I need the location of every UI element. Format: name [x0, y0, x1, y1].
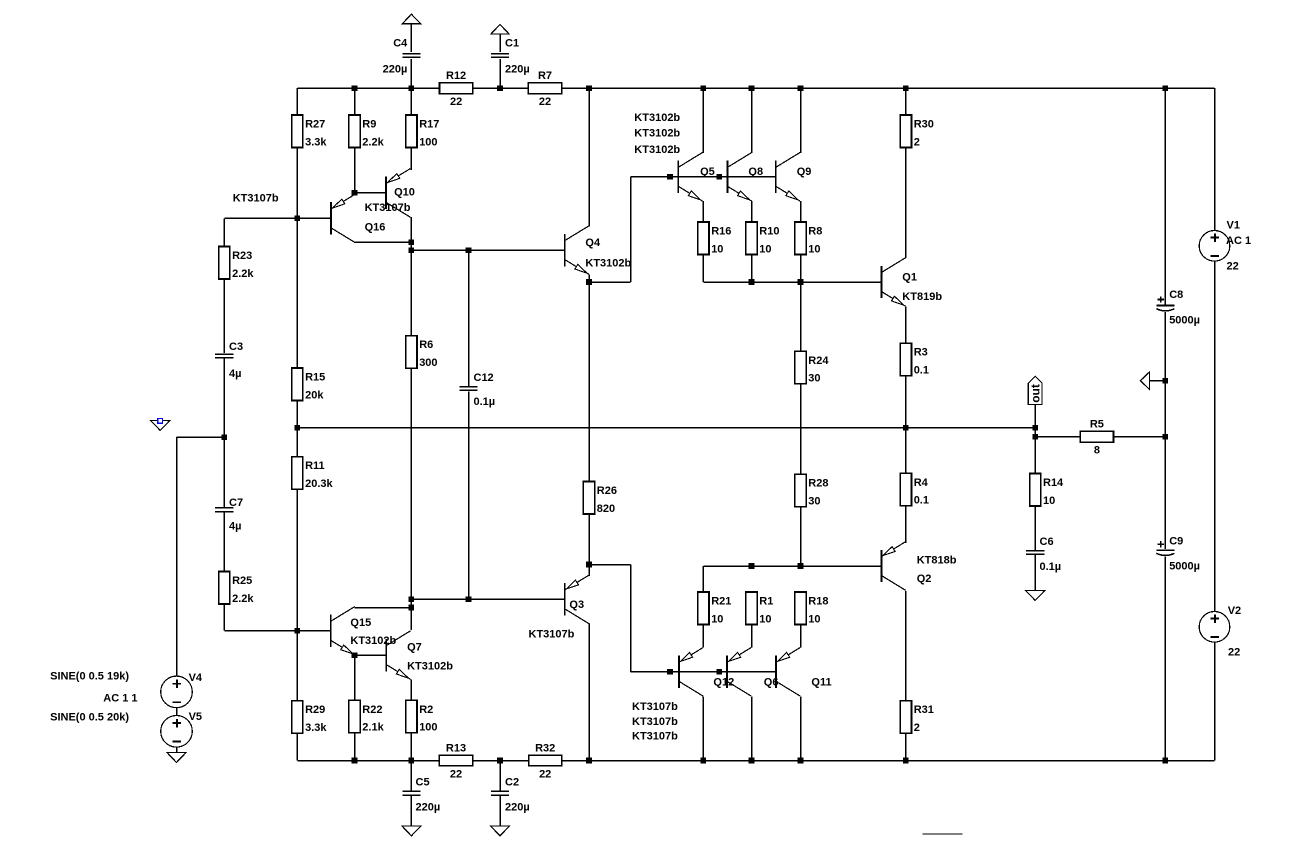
wire Q8 emitter to R10	[751, 201, 753, 222]
node bottom rail / R2+C5	[409, 758, 415, 764]
svg-text:3.3k: 3.3k	[305, 136, 327, 148]
wire mid bus to R4	[905, 428, 907, 474]
transistor Q6 (PNP)	[727, 648, 751, 697]
resistor R32 22	[529, 742, 562, 780]
svg-text:300: 300	[419, 357, 437, 369]
svg-text:R21: R21	[711, 596, 731, 608]
wire mid output bus	[297, 427, 1035, 429]
svg-text:R24: R24	[808, 355, 829, 367]
wire R16 to Q1 base bus	[702, 255, 704, 283]
node out / R5 / R14	[1032, 434, 1038, 440]
wire C4 power stem	[410, 24, 412, 52]
resistor R28 30	[795, 474, 829, 507]
transistor Q15 (NPN)	[331, 607, 355, 656]
ground floating input ground	[151, 421, 170, 431]
resistor R4 0.1	[900, 473, 929, 506]
svg-text:10: 10	[711, 243, 723, 255]
svg-text:R12: R12	[446, 70, 466, 82]
svg-text:C7: C7	[229, 497, 243, 509]
wire left rail upper	[296, 88, 298, 115]
ground ground below C5	[402, 826, 421, 836]
svg-text:KT3102b: KT3102b	[350, 635, 396, 647]
resistor R31 2	[900, 701, 934, 734]
wire R14 to C6	[1034, 506, 1036, 550]
transistor Q12 (PNP)	[679, 648, 703, 697]
stray mark	[922, 833, 962, 835]
svg-text:20.3k: 20.3k	[305, 478, 333, 490]
wire C2 to ground	[499, 796, 501, 826]
wire R31 to bottom rail	[905, 733, 907, 760]
svg-text:C3: C3	[229, 341, 243, 353]
voltage source V1	[1199, 231, 1230, 262]
svg-text:10: 10	[759, 613, 771, 625]
svg-text:KT818b: KT818b	[917, 554, 957, 566]
wire R29 to bottom rail	[296, 733, 298, 760]
wire bias riser to Q12 base bus	[630, 565, 632, 672]
svg-text:Q8: Q8	[748, 166, 763, 178]
svg-text:0.1µ: 0.1µ	[1040, 561, 1062, 573]
wire C7 to R25	[223, 512, 225, 571]
svg-text:AC 1 1: AC 1 1	[103, 693, 137, 705]
svg-text:KT3107b: KT3107b	[529, 628, 575, 640]
transistor Q5 (NPN)	[678, 153, 702, 202]
wire node B link	[410, 599, 412, 607]
transistor Q11 (PNP)	[776, 648, 800, 697]
capacitor C3 4µ	[215, 341, 243, 380]
svg-text:0.1: 0.1	[914, 495, 929, 507]
svg-text:10: 10	[711, 613, 723, 625]
wire R27 to Q16 base node	[296, 148, 298, 219]
resistor R3 0.1	[900, 343, 929, 376]
wire R25 corner to lower node	[224, 630, 297, 632]
node top rail / Q4 collector	[586, 85, 592, 91]
resistor R8 10	[795, 222, 822, 255]
resistor R29 3.3k	[292, 701, 328, 734]
wire right rail upper	[1214, 88, 1216, 230]
svg-text:5000µ: 5000µ	[1169, 561, 1200, 573]
svg-text:C8: C8	[1169, 289, 1183, 301]
wire Q6 collector drop	[751, 696, 753, 760]
node top rail / Q5 collector	[701, 85, 707, 91]
wire R24 to R28	[800, 384, 802, 474]
ground ground below V5	[167, 753, 186, 763]
wire C2 top lead	[499, 761, 501, 791]
svg-text:C12: C12	[474, 372, 494, 384]
node lower driver bus / R6	[409, 597, 415, 603]
resistor R27 3.3k	[292, 115, 328, 148]
node R25 / R11 / R29 / Q15 base	[295, 628, 301, 634]
wire R8 to Q1 base bus	[800, 255, 802, 283]
svg-text:2: 2	[914, 136, 920, 148]
wire V1 to V2	[1214, 261, 1216, 611]
wire Q15 emitter to Q7 base	[355, 654, 387, 656]
svg-text:3.3k: 3.3k	[305, 722, 327, 734]
svg-text:KT3102b: KT3102b	[585, 258, 631, 270]
resistor R12 22	[440, 70, 473, 108]
svg-text:SINE(0 0.5 19k): SINE(0 0.5 19k)	[50, 671, 129, 683]
capacitor C9 5000µ (polarized)	[1156, 536, 1200, 573]
svg-text:C6: C6	[1040, 536, 1054, 548]
voltage source V5	[161, 716, 193, 748]
resistor R14 10	[1030, 474, 1064, 507]
node Q1 base bus / R8+R24	[798, 279, 804, 285]
svg-text:Q16: Q16	[365, 221, 386, 233]
ground ground below C2	[491, 826, 510, 836]
svg-text:Q7: Q7	[407, 642, 422, 654]
wire Q3 emitter node to bias riser	[589, 564, 631, 566]
resistor R15 20k	[292, 368, 326, 401]
node A (collectors Q16+Q10)	[409, 240, 415, 246]
node Q2 base bus / R1	[749, 563, 755, 569]
wire Q2 collector drop	[905, 591, 907, 701]
wire R5 bus	[1035, 436, 1165, 438]
svg-text:R6: R6	[419, 339, 433, 351]
wire R17 to Q10 emitter	[410, 148, 412, 171]
node top rail / C1	[497, 85, 503, 91]
svg-text:R5: R5	[1090, 419, 1104, 431]
wire Q1 emitter to R3	[905, 307, 907, 344]
svg-text:2.1k: 2.1k	[362, 722, 384, 734]
node Q16 emitter / R9	[352, 190, 358, 196]
svg-text:R26: R26	[597, 485, 617, 497]
transistor Q7 (NPN)	[386, 631, 410, 680]
svg-text:22: 22	[1228, 647, 1240, 659]
wire Q10 collector drop	[410, 217, 412, 243]
svg-text:R2: R2	[419, 704, 433, 716]
svg-text:10: 10	[1043, 495, 1055, 507]
svg-text:R25: R25	[232, 575, 252, 587]
wire V5 to ground	[176, 747, 178, 753]
unconnected pin marker	[158, 419, 163, 424]
svg-text:KT3102b: KT3102b	[634, 144, 680, 156]
svg-text:Q12: Q12	[713, 677, 734, 689]
svg-text:R14: R14	[1043, 477, 1064, 489]
wire R2 to bottom rail	[410, 733, 412, 761]
voltage source V2	[1199, 612, 1230, 643]
wire Q2 base bus	[703, 565, 881, 567]
wire R9 top	[354, 88, 356, 115]
node Q4 emitter	[586, 279, 592, 285]
transistor Q4 (NPN)	[565, 226, 589, 275]
resistor R22 2.1k	[349, 700, 385, 733]
wire Q7 emitter drop	[410, 679, 412, 700]
wire Q8 collector riser	[751, 88, 753, 153]
svg-text:KT3102b: KT3102b	[407, 660, 453, 672]
wire Q4 emitter to bias riser	[589, 281, 631, 283]
svg-text:22: 22	[539, 96, 551, 108]
node Q5 base	[667, 174, 673, 180]
svg-text:R18: R18	[808, 596, 828, 608]
transistor Q10 (PNP)	[386, 169, 410, 218]
node top rail / Q9 collector	[798, 85, 804, 91]
svg-text:KT3107b: KT3107b	[632, 701, 678, 713]
svg-text:R1: R1	[759, 596, 773, 608]
resistor R11 20.3k	[292, 457, 334, 490]
wire ground stub	[1149, 380, 1165, 382]
wire R9 to Q16 emitter node	[354, 148, 356, 193]
svg-text:KT819b: KT819b	[902, 291, 942, 303]
wire Q9 emitter to R8	[800, 201, 802, 222]
node upper driver bus / R6	[409, 247, 415, 253]
transistor Q8 (NPN)	[728, 153, 752, 202]
wire R3 to mid bus	[905, 376, 907, 428]
svg-text:820: 820	[597, 503, 615, 515]
transistor Q9 (NPN)	[776, 153, 800, 202]
wire R1 to Q6 emitter	[751, 625, 753, 648]
svg-text:2.2k: 2.2k	[362, 136, 384, 148]
svg-text:2: 2	[914, 722, 920, 734]
svg-text:R3: R3	[914, 347, 928, 359]
wire input node to source column	[177, 436, 225, 438]
svg-text:2.2k: 2.2k	[232, 268, 254, 280]
wire C3 to input node	[223, 358, 225, 437]
wire Q1 base bus	[703, 281, 881, 283]
svg-text:8: 8	[1094, 445, 1100, 457]
wire bottom rail	[297, 760, 1214, 762]
wire source column down	[176, 437, 178, 676]
svg-text:R22: R22	[362, 704, 382, 716]
resistor R13 22	[439, 742, 472, 780]
resistor R5 8	[1080, 419, 1113, 457]
svg-text:5000µ: 5000µ	[1169, 314, 1200, 326]
wire Q15 emitter to R22	[354, 655, 356, 700]
wire mid bus end jog	[1034, 428, 1036, 437]
wire Q15 collector link	[355, 607, 412, 609]
svg-text:2.2k: 2.2k	[232, 593, 254, 605]
resistor R30 2	[900, 115, 934, 148]
svg-text:0.1µ: 0.1µ	[474, 396, 496, 408]
svg-text:R27: R27	[305, 119, 325, 131]
node bottom rail / R22	[352, 758, 358, 764]
node R5 / supply midpoint	[1163, 434, 1169, 440]
resistor R6 300	[406, 336, 438, 369]
wire node A to node B	[410, 242, 412, 250]
svg-text:220µ: 220µ	[383, 64, 408, 76]
wire R25 to corner	[223, 604, 225, 631]
wire lower driver bus	[411, 598, 564, 600]
node bottom rail / C2	[497, 758, 503, 764]
svg-text:0.1: 0.1	[914, 365, 929, 377]
wire R30 to Q1 collector	[905, 148, 907, 259]
resistor R24 30	[795, 351, 829, 384]
ground ground arrow at supply midpoint	[1140, 372, 1149, 390]
power symbol VCC arrow above C4	[402, 14, 420, 24]
svg-text:KT3102b: KT3102b	[634, 128, 680, 140]
capacitor C1 220µ	[491, 38, 530, 76]
node mid bus / R15+R11	[295, 425, 301, 431]
ground ground below C6	[1026, 591, 1045, 601]
svg-text:100: 100	[419, 136, 437, 148]
wire R30 top	[905, 88, 907, 115]
node ground tap	[1163, 378, 1169, 384]
svg-text:30: 30	[808, 373, 820, 385]
wire Q16 collector link	[355, 241, 412, 243]
wire R24 top lead	[800, 282, 802, 351]
wire mid bus to R11	[296, 428, 298, 457]
svg-text:R23: R23	[232, 250, 252, 262]
svg-text:C1: C1	[505, 38, 519, 50]
wire R5 node to C9	[1164, 437, 1166, 549]
svg-text:Q11: Q11	[811, 677, 831, 689]
svg-text:Q10: Q10	[394, 187, 415, 199]
svg-text:R8: R8	[808, 226, 822, 238]
node mid bus / R3+R4	[903, 425, 909, 431]
capacitor C5 220µ	[402, 777, 440, 814]
node Q1 base bus / R10	[749, 279, 755, 285]
node Q2 base bus / R18+R28	[798, 563, 804, 569]
wire Q2 base bus corner down	[702, 566, 704, 592]
svg-text:Q1: Q1	[902, 271, 917, 283]
wire R18 to Q11 emitter	[800, 625, 802, 648]
wire Q3 collector drop	[588, 623, 590, 760]
resistor R26 820	[583, 482, 617, 515]
svg-text:220µ: 220µ	[505, 801, 530, 813]
wire Q11 collector drop	[800, 696, 802, 760]
transistor Q2 (PNP)	[881, 542, 905, 591]
resistor R10 10	[746, 222, 780, 255]
svg-text:22: 22	[539, 768, 551, 780]
wire R23 to C3	[223, 279, 225, 354]
svg-text:220µ: 220µ	[505, 64, 530, 76]
capacitor C2 220µ	[491, 777, 530, 814]
node Q12 base	[667, 669, 673, 675]
wire Q7 collector riser	[410, 608, 412, 630]
wire Q3 emitter stub	[588, 565, 590, 576]
svg-text:R4: R4	[914, 477, 929, 489]
svg-text:4µ: 4µ	[229, 521, 241, 533]
wire V2 to bottom rail	[1214, 642, 1216, 760]
svg-text:10: 10	[808, 243, 820, 255]
node bottom rail / Q11	[798, 758, 804, 764]
wire R6 top lead	[410, 250, 412, 336]
svg-text:Q4: Q4	[585, 237, 601, 249]
node bottom rail / Q6	[749, 758, 755, 764]
node Q3 emitter / R26	[586, 562, 592, 568]
wire Q4 emitter to R26	[588, 282, 590, 482]
node upper driver bus / C12	[466, 247, 472, 253]
node top rail / R9	[352, 85, 358, 91]
svg-text:4µ: 4µ	[229, 368, 241, 380]
svg-text:KT3107b: KT3107b	[233, 192, 279, 204]
capacitor C12 0.1µ	[459, 372, 495, 408]
node top rail / Q8 collector	[749, 85, 755, 91]
node mid bus / out	[1032, 425, 1038, 431]
svg-text:R15: R15	[305, 372, 325, 384]
resistor R25 2.2k	[219, 572, 255, 605]
svg-text:R28: R28	[808, 478, 828, 490]
svg-text:220µ: 220µ	[416, 801, 441, 813]
wire top supply rail	[297, 87, 1214, 89]
wire Q12 base bus	[631, 671, 776, 673]
wire R28 to Q2 base bus	[800, 507, 802, 566]
wire C5 to ground	[410, 796, 412, 826]
svg-text:R11: R11	[305, 460, 325, 472]
node Q6 base	[716, 669, 722, 675]
resistor R2 100	[406, 700, 438, 733]
node Q15 emitter / R22	[352, 652, 358, 658]
wire R4 to Q2 emitter	[905, 506, 907, 543]
wire C8 to ground node	[1164, 312, 1166, 381]
svg-text:10: 10	[808, 613, 820, 625]
wire C12 bottom lead	[468, 391, 470, 599]
voltage source V4	[161, 676, 193, 708]
wire C6 to ground	[1034, 555, 1036, 591]
svg-text:out: out	[1029, 384, 1043, 403]
svg-text:R31: R31	[914, 704, 934, 716]
wire R6 bottom lead	[410, 368, 412, 599]
svg-text:R9: R9	[362, 119, 376, 131]
resistor R16 10	[698, 222, 732, 255]
wire Q16 base bus	[224, 217, 331, 219]
resistor R7 22	[528, 70, 561, 108]
node top rail / C4+R17	[409, 85, 415, 91]
transistor Q3 (PNP)	[565, 575, 589, 624]
node B (collectors Q15+Q7)	[409, 605, 415, 611]
wire Q10 emitter riser	[410, 148, 412, 171]
wire Q4 collector riser	[588, 88, 590, 226]
wire Q5 base bus	[631, 176, 776, 178]
wire R15 to mid bus	[296, 401, 298, 428]
wire Q16 base node to R15	[296, 218, 298, 368]
node lower driver bus / C12	[466, 597, 472, 603]
wire bias riser to Q5 base bus	[630, 177, 632, 282]
out flag	[1028, 376, 1042, 404]
wire C1 to top rail	[499, 59, 501, 88]
svg-text:V4: V4	[189, 672, 203, 684]
svg-text:Q9: Q9	[797, 166, 812, 178]
wire Q5 collector riser	[702, 88, 704, 153]
wire C5 top lead	[410, 761, 412, 791]
node top rail / R30	[903, 85, 909, 91]
resistor R23 2.2k	[219, 247, 255, 280]
wire C9 to bottom rail	[1164, 556, 1166, 760]
capacitor C8 5000µ (polarized)	[1156, 289, 1200, 326]
power symbol VCC arrow above C1	[491, 25, 509, 35]
svg-text:R16: R16	[711, 226, 731, 238]
node bottom rail / R31	[903, 758, 909, 764]
svg-text:V2: V2	[1228, 605, 1241, 617]
wire Q9 collector riser	[800, 88, 802, 153]
svg-text:20k: 20k	[305, 389, 324, 401]
node top rail / C8	[1163, 85, 1169, 91]
wire R22 to bottom rail	[354, 733, 356, 761]
wire R11 to lower node	[296, 489, 298, 630]
svg-text:V5: V5	[189, 711, 202, 723]
svg-text:R29: R29	[305, 704, 325, 716]
capacitor C4 220µ	[383, 38, 421, 76]
svg-text:C5: C5	[416, 777, 430, 789]
svg-text:R30: R30	[914, 119, 934, 131]
svg-text:100: 100	[419, 722, 437, 734]
wire R17 top	[410, 88, 412, 115]
capacitor C7 4µ	[215, 497, 243, 533]
transistor Q16 (PNP)	[331, 194, 355, 243]
svg-text:R10: R10	[759, 226, 779, 238]
svg-text:KT3107b: KT3107b	[632, 731, 678, 743]
wire input node to C7	[223, 437, 225, 507]
svg-text:KT3107b: KT3107b	[632, 716, 678, 728]
wire R14 top lead	[1034, 437, 1036, 474]
wire R21 to Q12 emitter	[702, 625, 704, 648]
svg-text:R13: R13	[446, 742, 466, 754]
svg-text:Q2: Q2	[917, 573, 932, 585]
svg-text:Q6: Q6	[764, 677, 779, 689]
wire out flag stem	[1034, 404, 1036, 428]
transistor Q1 (NPN)	[881, 258, 905, 307]
svg-text:C9: C9	[1169, 536, 1183, 548]
svg-text:AC 1: AC 1	[1226, 235, 1251, 247]
wire R10 to Q1 base bus	[751, 255, 753, 283]
